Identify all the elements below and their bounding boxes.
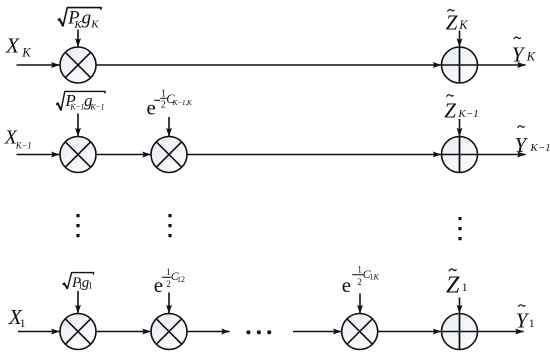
svg-text:K: K (90, 18, 99, 30)
wire M1 to A1 (96, 64, 441, 66)
svg-text:1: 1 (529, 316, 535, 330)
multiplier M1 (60, 47, 96, 83)
vertical dots column 3 (458, 217, 461, 240)
wire Z_1 arrow into A3 (459, 298, 461, 314)
vertical dots column 2 (168, 214, 171, 237)
horizontal ellipsis dots (246, 330, 271, 334)
label sqrt(P_1 g_1) (63, 273, 94, 291)
vertical dots column 1 (76, 214, 79, 237)
wire M2b to A2 (187, 154, 441, 156)
svg-text:g: g (82, 8, 92, 29)
label Z~_K-1 (444, 95, 478, 123)
label e^(-1/2 C_12) (154, 267, 185, 297)
svg-text:e: e (342, 273, 351, 297)
svg-text:Y: Y (516, 308, 530, 332)
wire dots to M3c (293, 331, 341, 333)
svg-text:K: K (526, 49, 536, 63)
wire M3b to dots (187, 331, 230, 333)
svg-text:K: K (21, 45, 31, 59)
multiplier M3c (342, 314, 378, 350)
wire M2a to M2b (96, 154, 151, 156)
svg-text:Z: Z (444, 98, 456, 122)
wire input X_1 (18, 331, 60, 333)
wire gain arrow into M2a (77, 114, 79, 137)
svg-text:Y: Y (515, 133, 529, 157)
label Z~_1 (446, 269, 468, 298)
wire gain arrow into M3c (359, 294, 361, 314)
wire output Y_K-1 (478, 154, 526, 156)
svg-text:12: 12 (177, 275, 185, 284)
svg-text:K−1: K−1 (15, 141, 32, 151)
label Y~_1 (516, 305, 535, 332)
label Y~_K (512, 37, 536, 66)
multiplier M3b (151, 314, 187, 350)
svg-text:X: X (5, 34, 20, 58)
wire Z_K arrow into A1 (459, 31, 461, 47)
wire gain arrow into M1 (77, 30, 79, 47)
svg-text:Z: Z (446, 272, 460, 298)
svg-text:e: e (147, 95, 156, 119)
adder A2 (442, 137, 478, 173)
svg-text:Y: Y (512, 42, 526, 66)
svg-text:2: 2 (357, 277, 362, 287)
svg-text:Z: Z (446, 10, 458, 34)
wire output Y_1 (478, 331, 524, 333)
svg-text:1: 1 (357, 264, 362, 274)
wire gain arrow into M3a (77, 291, 79, 313)
svg-text:K−1: K−1 (89, 102, 104, 111)
svg-text:2: 2 (161, 99, 166, 110)
svg-text:K−1: K−1 (529, 142, 550, 154)
label Z~_K (446, 10, 469, 35)
label X_1 (8, 305, 26, 330)
label e^(-1/2 C_K-1,K) (147, 89, 193, 120)
svg-text:K: K (458, 18, 468, 32)
svg-text:e: e (154, 273, 163, 297)
svg-text:K: K (373, 273, 380, 282)
wire input X_K-1 (17, 154, 60, 156)
wire gain arrow into M3b (168, 293, 170, 314)
adder A1 (442, 47, 478, 83)
svg-text:K−1,K: K−1,K (172, 98, 193, 107)
label X_K (5, 34, 31, 60)
wire M3c to A3 (378, 331, 442, 333)
adder A3 (442, 314, 478, 350)
label e^(-1/2 C_1K) (342, 264, 380, 297)
multiplier M2a (60, 137, 96, 173)
wire input X_K (17, 64, 60, 66)
label sqrt(P_K g_K) (58, 8, 101, 31)
svg-text:1: 1 (20, 316, 26, 330)
svg-text:1: 1 (88, 281, 93, 291)
svg-text:K−1: K−1 (457, 108, 478, 120)
label X_K-1 (4, 127, 32, 151)
label Y~_K-1 (515, 126, 550, 157)
label sqrt(P_K-1 g_K-1) (56, 91, 105, 112)
svg-text:K−1: K−1 (69, 102, 84, 111)
wire Z_K-1 arrow into A2 (459, 119, 461, 136)
multiplier M3a (60, 314, 96, 350)
wire output Y_K (478, 64, 526, 66)
svg-text:1: 1 (462, 280, 468, 294)
multiplier M2b (151, 137, 187, 173)
wire M3a to M3b (96, 331, 151, 333)
wire gain arrow into M2b (168, 117, 170, 136)
